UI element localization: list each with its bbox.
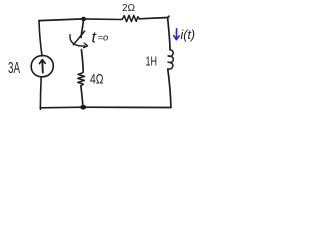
current source I1 circle [31, 56, 53, 77]
wire left branch down [39, 21, 42, 56]
wire R2 to top-right corner [139, 16, 169, 19]
wire right branch top-right corner down to inductor [168, 18, 171, 50]
wire R1 to node B [81, 86, 83, 107]
bottom wire right [83, 106, 171, 108]
wire below current source [39, 77, 42, 108]
inductor L1 coil [168, 50, 174, 69]
svg-text:1H: 1H [146, 53, 158, 68]
svg-text:3A: 3A [8, 60, 20, 77]
wire node A down to switch [81, 19, 84, 38]
current source arrow [41, 61, 44, 72]
svg-text:=o: =o [98, 33, 109, 44]
switch SW1 blade [73, 31, 84, 45]
bottom wire left [40, 107, 83, 109]
node A (top junction dot) [81, 17, 86, 21]
current label arrow i(t) (blue) [175, 29, 177, 39]
svg-text:i(t): i(t) [181, 28, 196, 42]
wire switch to resistor R1 [81, 50, 83, 71]
switch SW1 opening arc arrow [70, 35, 85, 46]
svg-text:4Ω: 4Ω [90, 71, 104, 87]
wire top-left to node A [39, 19, 84, 21]
resistor R2 2ohm zigzag [121, 15, 140, 21]
svg-text:t: t [92, 30, 97, 47]
svg-text:2Ω: 2Ω [122, 3, 136, 14]
node B (bottom junction dot) [80, 105, 86, 110]
resistor R1 4ohm zigzag (vertical) [78, 71, 85, 86]
wire inductor to bottom-right corner [168, 69, 171, 107]
wire node A to resistor R2 [84, 18, 121, 21]
